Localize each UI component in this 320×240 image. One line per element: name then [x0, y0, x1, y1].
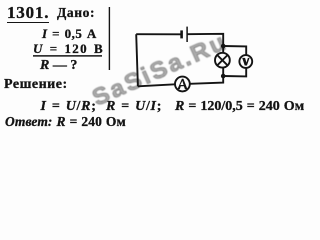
wire: bottom node down to bottom wire and left to ammeter: [190, 76, 223, 84]
lamp EL1: [215, 53, 230, 68]
wire: stub from top node to lamp: [222, 46, 224, 53]
battery GB1: [182, 27, 188, 42]
ammeter A1: [175, 77, 190, 92]
label Дано:: [57, 7, 95, 18]
label Решение:: [4, 79, 68, 90]
unknown R - ?: [40, 60, 77, 71]
node: bottom junction: [221, 74, 226, 79]
dано separator line under U = 120 В: [33, 55, 102, 57]
wire: voltmeter branch bottom: [223, 68, 246, 77]
problem number 1301.: [7, 5, 49, 23]
circuit schematic SVG layer: [0, 0, 310, 136]
wire: voltmeter branch top: [223, 46, 246, 55]
wire: ammeter to bottom-left corner: [138, 84, 175, 86]
wire: top right segment from battery to corner: [187, 34, 223, 46]
node: top junction: [221, 44, 226, 49]
wire: lamp to bottom node: [222, 68, 224, 76]
wire: left vertical of main loop: [136, 34, 138, 86]
wire: top left segment to battery: [136, 33, 180, 35]
given I = 0,5 A: [42, 28, 97, 39]
voltmeter PV1: [239, 55, 252, 68]
dано vertical divider line: [108, 7, 110, 70]
given U = 120 V: [33, 43, 104, 54]
solution formulas: [41, 101, 97, 112]
watermark SaSiSa.Ru: [89, 30, 231, 111]
answer line: [5, 116, 126, 127]
